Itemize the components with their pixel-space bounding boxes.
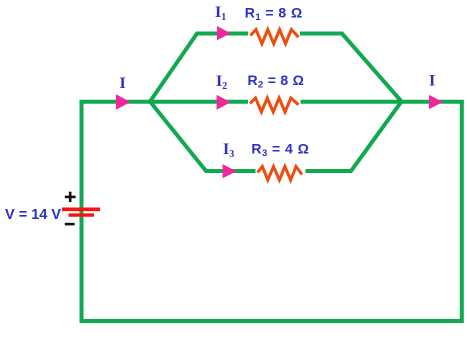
svg-text:I1: I1	[215, 4, 226, 23]
svg-text:R2 = 8 Ω: R2 = 8 Ω	[248, 72, 305, 91]
svg-text:V = 14 V: V = 14 V	[5, 207, 61, 223]
svg-text:I3: I3	[223, 141, 234, 160]
svg-text:R1 = 8 Ω: R1 = 8 Ω	[245, 4, 303, 23]
svg-text:I: I	[120, 75, 126, 92]
svg-text:I2: I2	[216, 73, 227, 92]
svg-text:R3 = 4 Ω: R3 = 4 Ω	[251, 141, 309, 160]
svg-text:I: I	[429, 73, 435, 90]
